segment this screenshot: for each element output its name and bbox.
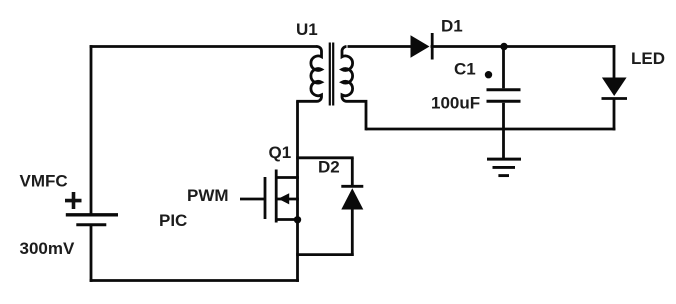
wire D2 cathode lead — [351, 158, 354, 186]
svg-text:100uF: 100uF — [431, 94, 480, 113]
svg-text:VMFC: VMFC — [20, 172, 68, 191]
capacitor C1 top lead — [502, 47, 505, 89]
ground — [487, 159, 521, 176]
diode D2 — [341, 186, 363, 209]
svg-text:PWM: PWM — [187, 186, 229, 205]
svg-text:PIC: PIC — [159, 211, 187, 230]
junction dot at C1 top — [500, 43, 507, 50]
svg-text:Q1: Q1 — [269, 143, 292, 162]
svg-text:LED: LED — [631, 49, 665, 68]
wire secondary bottom horizontal — [366, 128, 615, 131]
transformer U1 core — [329, 43, 331, 106]
wire bottom horizontal — [90, 279, 299, 282]
mosfet Q1 drain stub — [277, 176, 299, 179]
battery plus sign — [65, 192, 82, 209]
diode D1 — [411, 33, 433, 60]
mosfet Q1 channel plate — [275, 170, 278, 223]
mosfet Q1 gate lead — [240, 198, 264, 201]
wire top left horizontal — [90, 45, 318, 48]
svg-text:C1: C1 — [454, 60, 476, 79]
mosfet Q1 gate plate — [264, 177, 267, 219]
junction dot at Q1 source — [294, 216, 301, 223]
wire D2 branch top horizontal — [296, 156, 354, 159]
svg-text:300mV: 300mV — [20, 239, 75, 258]
wire D2 anode lead — [351, 209, 354, 256]
svg-text:U1: U1 — [296, 20, 318, 39]
LED diode — [602, 78, 628, 99]
mosfet Q1 arrow — [278, 193, 289, 204]
battery VMFC 300mV — [66, 215, 118, 225]
wire left vertical (battery top lead) — [90, 45, 93, 214]
mosfet Q1 middle stub — [277, 198, 299, 201]
mosfet Q1 source stub — [277, 218, 299, 221]
transformer U1 right winding — [342, 47, 366, 131]
wire battery bottom lead — [90, 226, 93, 282]
C1 polarity dot — [485, 71, 492, 78]
wire D1 cathode to right corner — [431, 45, 616, 48]
svg-text:D2: D2 — [318, 158, 340, 177]
svg-text:D1: D1 — [441, 17, 463, 36]
wire LED branch bottom — [613, 99, 616, 131]
wire D2 branch bottom horizontal — [296, 253, 354, 256]
capacitor C1 bottom lead to ground — [502, 103, 505, 160]
wire Q1 drain-source rail vertical — [296, 101, 299, 282]
transformer U1 left winding — [296, 46, 321, 101]
capacitor C1 plates — [487, 90, 521, 102]
wire LED branch top — [613, 45, 616, 78]
wire secondary top to D1 anode — [348, 45, 411, 48]
